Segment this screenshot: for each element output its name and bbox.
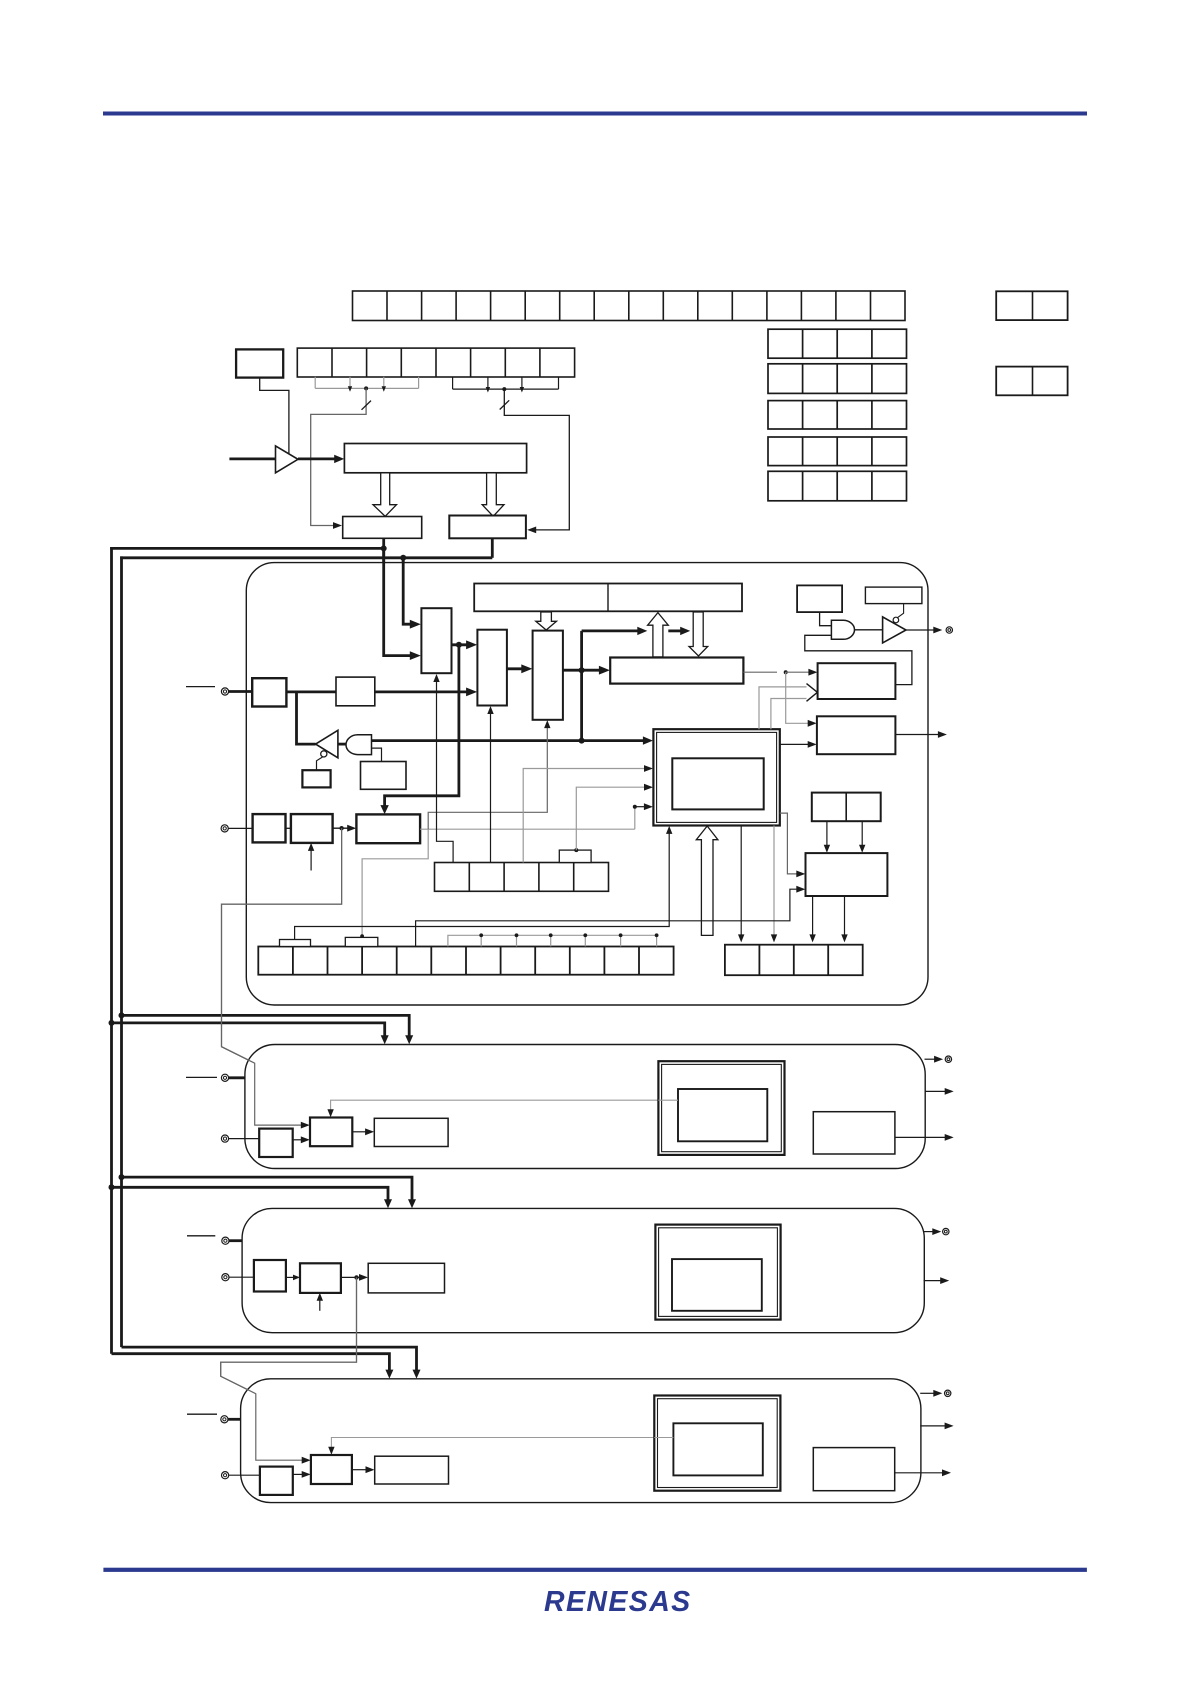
output buffer triangle right xyxy=(883,617,906,643)
cascade wire to block A xyxy=(222,828,342,1125)
bus feeds into block B xyxy=(119,1174,125,1180)
thick wire port box to divider box2 and branch down to inverter xyxy=(286,691,336,694)
block C counter inner box xyxy=(673,1423,762,1475)
clock input line xyxy=(229,457,275,460)
AND gate right column xyxy=(831,620,854,639)
vertical bus B (left inner) xyxy=(120,556,123,1347)
gray bus pair counter top to compare box xyxy=(759,687,807,729)
wire mid register box to compare box 1 xyxy=(743,671,777,673)
12-cell control register row xyxy=(258,947,673,975)
block A counter double box xyxy=(658,1061,784,1155)
gray bus wire to left prescaler box xyxy=(311,388,366,525)
8-cell register row xyxy=(297,348,574,377)
block C output 1 xyxy=(920,1392,934,1394)
bus feeds into block C xyxy=(122,1347,417,1371)
gray net branch up into tall box3 xyxy=(428,727,547,829)
input pad block A xyxy=(221,1135,228,1142)
buffer triangle xyxy=(276,446,299,473)
prescaler box left xyxy=(343,517,422,539)
wide control box top right xyxy=(865,587,922,604)
block C edge select box xyxy=(311,1455,352,1484)
AND lower wire to output control box xyxy=(372,748,382,761)
open chevron arrow into compare box xyxy=(807,684,818,693)
redraw: gray feedback segments inside double boxes xyxy=(658,1099,678,1101)
interrupt control box xyxy=(806,853,888,896)
block C filter box xyxy=(260,1467,293,1495)
wires from 5-cell row up into tall boxes xyxy=(437,681,454,863)
start bit box xyxy=(797,585,842,612)
input filter box 2 xyxy=(291,814,333,843)
clock bus A horizontal xyxy=(110,547,384,550)
block arrow down right xyxy=(482,473,504,517)
up arrow into filter box 2 xyxy=(310,849,312,871)
block A box output arrow xyxy=(945,1134,954,1141)
start bit wire to AND gate xyxy=(820,612,832,626)
block C output control box xyxy=(813,1448,894,1491)
clock pad block C xyxy=(221,1416,228,1423)
gray branch down to compare box 2 xyxy=(786,672,808,723)
block A output control box xyxy=(813,1112,895,1154)
gray feedback from block A counter xyxy=(331,1100,678,1110)
input pad block B xyxy=(222,1274,229,1281)
small register box (count source) xyxy=(236,349,283,377)
block A output 1 xyxy=(925,1058,936,1060)
hollow down arrow into tall box 3 xyxy=(536,612,557,630)
tall box 2 xyxy=(477,630,507,706)
bus slash mark right xyxy=(500,400,510,409)
tall box 3 counter xyxy=(533,631,563,720)
thin up arrow into counter bottom xyxy=(295,833,670,939)
block A output 2 xyxy=(925,1090,946,1092)
bus drop into count source select lower input xyxy=(384,548,412,655)
frequency divider box xyxy=(344,444,526,473)
hollow up block arrow under counter xyxy=(696,826,718,935)
prescaler box right xyxy=(449,516,526,539)
counter right exits xyxy=(780,813,798,874)
block A filter box xyxy=(259,1129,293,1157)
pin stub block B xyxy=(187,1235,215,1237)
block B output 1 xyxy=(924,1231,934,1233)
compare register box 2 xyxy=(817,716,896,754)
wires into interrupt box left xyxy=(416,889,798,946)
tall box 1 count source select xyxy=(421,608,451,673)
filter output wire with junction to lower blocks xyxy=(333,827,349,829)
I/O pad TRBO xyxy=(221,688,228,695)
counter inner box xyxy=(672,758,763,809)
5-cell compare register row xyxy=(435,863,609,892)
thick wire down from chain junction to mid-left box xyxy=(385,645,459,806)
block B output 2 xyxy=(924,1280,942,1282)
bus slash mark left xyxy=(362,401,372,410)
up arrow into block B box xyxy=(319,1300,321,1311)
pin stub block A xyxy=(186,1076,217,1078)
block B filter box xyxy=(254,1260,286,1292)
counter bottom drop gray to 4-cell row xyxy=(773,826,775,936)
clock pad block A xyxy=(221,1074,228,1081)
stub from left prescaler to bus A xyxy=(382,538,385,548)
2-cell flag box xyxy=(812,793,881,822)
block B counter inner box xyxy=(672,1259,762,1311)
input pad block C xyxy=(222,1472,229,1479)
timer block A (rounded) xyxy=(245,1045,925,1169)
AND output to output buffer xyxy=(854,629,882,631)
output control box xyxy=(361,762,407,790)
2-cell register box top-right #2 xyxy=(996,367,1067,396)
block B counter double box xyxy=(655,1225,780,1320)
block C output 2 xyxy=(920,1425,945,1427)
selector bracket right (black) from 8-cell row xyxy=(452,377,454,389)
gray feedback from block C counter xyxy=(331,1438,673,1449)
counter double box outer xyxy=(653,729,779,825)
thick transfer arrow segment 1 xyxy=(582,630,640,633)
redraw: cascade wire big block to block A xyxy=(222,828,342,1125)
pin stub block C xyxy=(187,1413,217,1415)
hollow down arrow 2 into mid register box xyxy=(689,612,708,656)
second box on output path xyxy=(336,677,375,706)
mid register box xyxy=(610,658,743,684)
block A control box xyxy=(374,1118,448,1146)
port output box xyxy=(252,678,286,706)
hollow up arrow from mid register box xyxy=(648,613,669,657)
counter bottom drop black to 4-cell row xyxy=(740,826,742,936)
cascade wire block B to block C xyxy=(221,1277,357,1460)
gray link line above 12-cell row xyxy=(448,935,657,946)
pin name stub line xyxy=(186,686,215,688)
16-cell register row (timer mode registers) xyxy=(353,291,906,321)
mid-left register box xyxy=(356,814,420,843)
compare register box 1 xyxy=(818,663,896,699)
thick chain tall box3 -> mid register box xyxy=(563,669,602,672)
2-cell register box top-right #1 xyxy=(996,291,1067,320)
block A edge select box xyxy=(310,1118,352,1147)
input filter box 1 xyxy=(253,814,286,842)
4-cell status row xyxy=(725,945,863,976)
tab 2 on 12-cell row xyxy=(345,937,378,946)
block C counter double box xyxy=(654,1396,780,1491)
interrupt box bottom arrows to 4-cell row xyxy=(812,896,814,935)
polarity select box xyxy=(302,770,330,787)
block C box output arrow xyxy=(942,1469,951,1476)
box2 output exits block xyxy=(895,734,938,736)
AND output thick line to counter double box xyxy=(372,739,645,742)
bubble wire to polarity box xyxy=(317,757,323,770)
thick chain tall box2 -> tall box3 xyxy=(507,667,524,670)
gray wire 5-cell row to counter double box xyxy=(523,769,645,863)
wide box wire to bubble xyxy=(898,604,904,618)
stub triangle to AND gate xyxy=(338,743,347,746)
inverter bubble xyxy=(321,751,327,757)
thick transfer arrow segment 2 xyxy=(668,630,682,633)
gray net: mid-left box output xyxy=(420,828,635,830)
thick chain tall box1 -> tall box2 xyxy=(452,643,470,646)
clock pad block B xyxy=(222,1237,229,1244)
redraw: cascade wire block B to block C xyxy=(221,1277,357,1460)
timer channel main block (rounded) xyxy=(246,563,928,1005)
output pad top right xyxy=(946,627,952,633)
thick vertical from transfer arrow to AND output line xyxy=(580,631,583,741)
block B control box xyxy=(368,1263,444,1293)
bus A drop into count source select upper input xyxy=(403,558,412,624)
block B edge select box xyxy=(300,1263,341,1293)
buffer output to pad xyxy=(906,629,935,631)
stub from right prescaler to bus B xyxy=(491,538,494,558)
svg-text:RENESAS: RENESAS xyxy=(544,1586,692,1618)
vertical bus A (left outer) xyxy=(110,547,113,1354)
block A counter inner box xyxy=(678,1089,767,1141)
gray wire tab to counter double box xyxy=(576,787,645,850)
bottom footer rule xyxy=(103,1568,1087,1572)
five 4-cell register rows right column xyxy=(768,329,907,358)
clock bus B horizontal xyxy=(120,556,492,559)
bus wire to right prescaler box xyxy=(504,389,569,530)
tab 1 on 12-cell row xyxy=(280,940,311,947)
gray net branch down to row tab 2 xyxy=(362,829,428,934)
timer block B (rounded) xyxy=(242,1208,924,1332)
I/O pad TRBI xyxy=(221,825,228,832)
long control register box xyxy=(474,584,742,612)
bus feeds into block A xyxy=(119,1012,125,1018)
top header rule xyxy=(103,112,1087,116)
selector bracket left (gray) from 8-cell row xyxy=(314,377,316,389)
feedback wire compare box1 to AND gate xyxy=(805,635,912,684)
tab on 5-cell row xyxy=(559,850,591,862)
timer block C (rounded) xyxy=(241,1379,921,1503)
wire from small register box down to oscillator buffer xyxy=(260,378,289,454)
left-facing AND gate xyxy=(346,735,372,755)
buffer bubble xyxy=(893,617,899,623)
redraw: bus drops crossing big block top edge xyxy=(403,558,412,624)
block C control box xyxy=(375,1456,449,1484)
output inverter triangle (points left) xyxy=(316,730,338,758)
block arrow down left xyxy=(373,473,397,517)
